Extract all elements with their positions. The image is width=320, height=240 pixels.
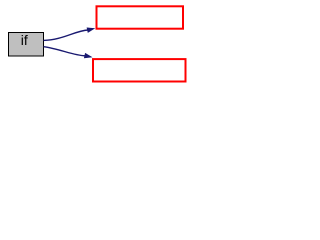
- svg-text:if: if: [21, 32, 28, 48]
- background: [0, 0, 192, 88]
- node TOP (red truncated box): [97, 6, 184, 28]
- edge: if -> top node: [44, 30, 89, 40]
- arrowhead: if -> top node: [87, 28, 94, 33]
- edge: if -> bottom node: [44, 47, 86, 56]
- node BOTTOM (red truncated box): [93, 59, 186, 81]
- arrowhead: if -> bottom node: [84, 53, 91, 58]
- node IF (current node, gray box): [9, 32, 44, 56]
